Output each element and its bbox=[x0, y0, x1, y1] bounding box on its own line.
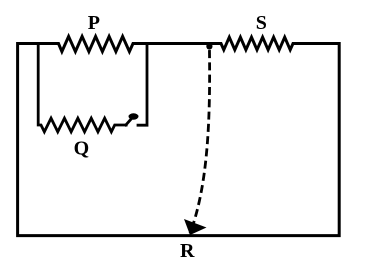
svg-text:S: S bbox=[256, 12, 267, 34]
svg-text:R: R bbox=[180, 240, 195, 262]
svg-text:Q: Q bbox=[74, 137, 90, 159]
svg-text:P: P bbox=[88, 12, 100, 34]
